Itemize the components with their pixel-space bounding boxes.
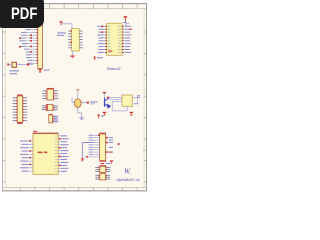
VCC flag above U3 [123,16,129,26]
title text AlphaBotC-4u [115,178,141,182]
zone mark right margin [143,149,145,152]
net marks below U8 [101,163,111,164]
power flag near U9 [110,160,113,163]
ground flag below U1 [38,69,49,73]
small DIP U4 [42,88,58,100]
regulator U6 with feedback loop [107,95,139,116]
power flag with net label mid sheet [94,56,103,59]
crystal X1 with series wires [7,62,33,67]
net labels left of U3 [97,26,105,53]
value text under X1 [10,70,20,74]
power flag feeding U2 top [59,21,72,28]
header J1 dual-row connector [13,94,28,124]
small DIP U10 [95,174,110,180]
ground below U2 [70,51,75,58]
net labels / wires into U1 left pins [19,29,36,64]
schematic sheet frame with border rulers [2,3,147,191]
small DIP U5 [42,104,58,110]
svg-text:2N4w-A2: 2N4w-A2 [107,67,121,71]
net labels left of U2 [57,32,66,36]
transistor Q1 [103,92,112,115]
MCU U7 body [33,131,58,174]
svg-text:AlphaBotC-4u: AlphaBotC-4u [115,178,141,182]
U7 right pins and labels [54,135,68,171]
single-row connector J2 [49,114,59,123]
small DIP U9 [95,166,110,173]
caption text under U3 [107,67,121,71]
power flag above U8 [97,115,103,119]
logo W. [124,168,131,175]
PDF badge overlay [0,0,44,28]
IC U2 body with side pins [68,29,82,52]
net labels right of U3 [125,26,132,53]
round component Y1 with wiring [72,89,98,120]
U7 left pins and labels [20,140,33,171]
connector/driver U8 with left wiring [89,133,106,162]
net stub at right margin [138,95,140,98]
IC U3 body with dual-row pins [105,23,124,55]
IC U1 vertical multi-pin body [36,22,42,69]
U8 right pads and labels [106,137,120,153]
long net wire from U8 to ground [81,143,94,162]
svg-text:W.: W. [124,168,131,175]
